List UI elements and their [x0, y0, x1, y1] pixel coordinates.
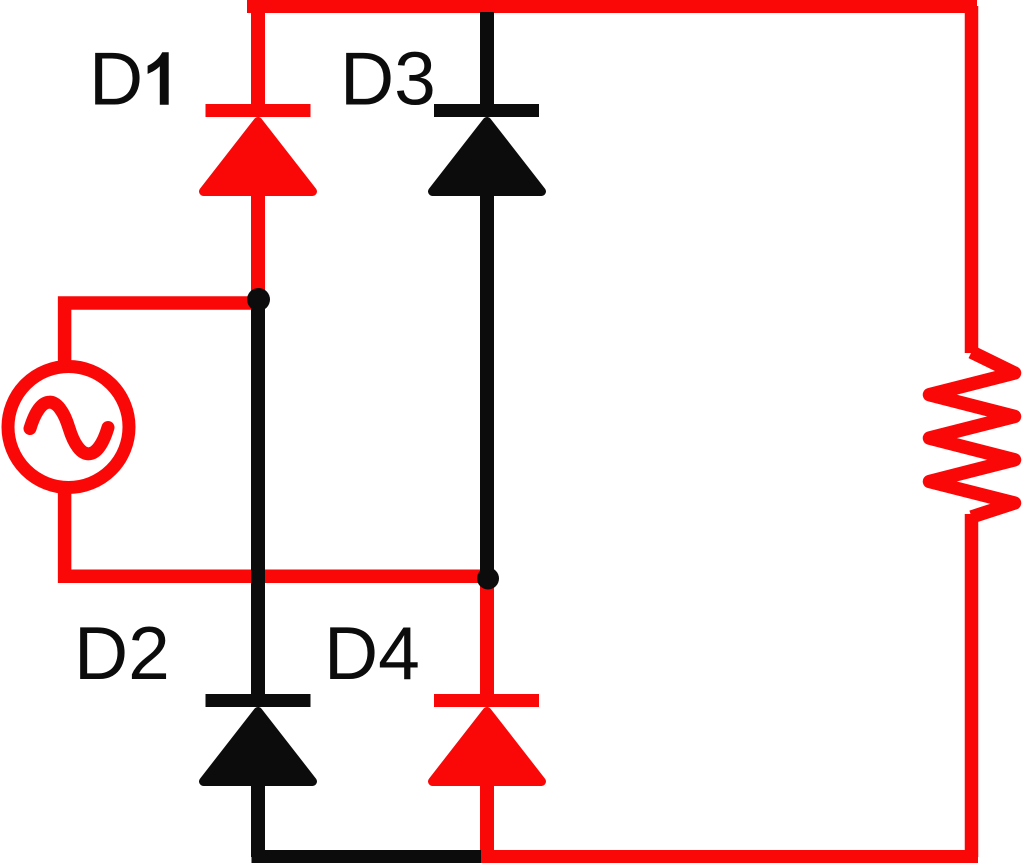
diode D4 cathode bar: [434, 694, 539, 707]
ac source sine wave: [30, 402, 108, 454]
resistor R load: [930, 352, 1015, 517]
ac source V1 circle: [8, 367, 129, 488]
diode D3 cathode bar: [434, 104, 539, 117]
diode D2 lead bottom black: [251, 779, 265, 857]
svg-text:D3: D3: [340, 37, 436, 121]
diode D2 triangle: [204, 712, 313, 782]
svg-text:D2: D2: [74, 611, 170, 695]
diode D4 triangle: [433, 712, 542, 782]
diode D3 triangle: [433, 122, 542, 192]
diode D1 lead bottom red: [251, 190, 265, 296]
wire right vertical lower red: [965, 514, 979, 857]
node B junction dot: [477, 568, 499, 590]
diode D2 cathode bar: [206, 694, 311, 707]
diode D3 lead top black: [480, 12, 494, 110]
diode D1 cathode bar: [206, 104, 311, 117]
diode D4 lead top red: [480, 578, 494, 700]
diode D1 triangle: [204, 122, 313, 192]
wire node A to D2 black vertical: [251, 299, 265, 700]
diode D4 lead bottom red: [480, 779, 494, 857]
wire bottom left black: [252, 850, 482, 863]
wire top rail red: [247, 0, 977, 13]
wire right vertical upper red: [965, 6, 979, 353]
diode D1 lead top red: [251, 0, 265, 110]
node A junction dot: [247, 288, 270, 311]
wire bottom right red: [480, 850, 978, 863]
diode D3 lead bottom black: [480, 190, 494, 575]
svg-text:D4: D4: [324, 611, 420, 695]
wire source top lead red: [65, 303, 259, 366]
wire source bottom lead red: [65, 488, 489, 576]
svg-text:D: D: [89, 37, 143, 121]
